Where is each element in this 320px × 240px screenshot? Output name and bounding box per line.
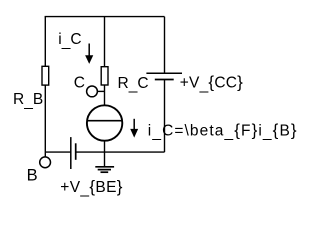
svg-text:C: C <box>74 74 85 91</box>
svg-text:R_C: R_C <box>118 75 149 94</box>
svg-text:+V_{CC}: +V_{CC} <box>180 73 243 94</box>
svg-text:+V_{BE}: +V_{BE} <box>60 177 123 198</box>
svg-text:i_C=\beta_{F}i_{B}: i_C=\beta_{F}i_{B} <box>148 120 298 141</box>
svg-text:B: B <box>27 167 38 185</box>
svg-text:i_C: i_C <box>58 31 81 50</box>
svg-text:R_B: R_B <box>13 91 43 110</box>
